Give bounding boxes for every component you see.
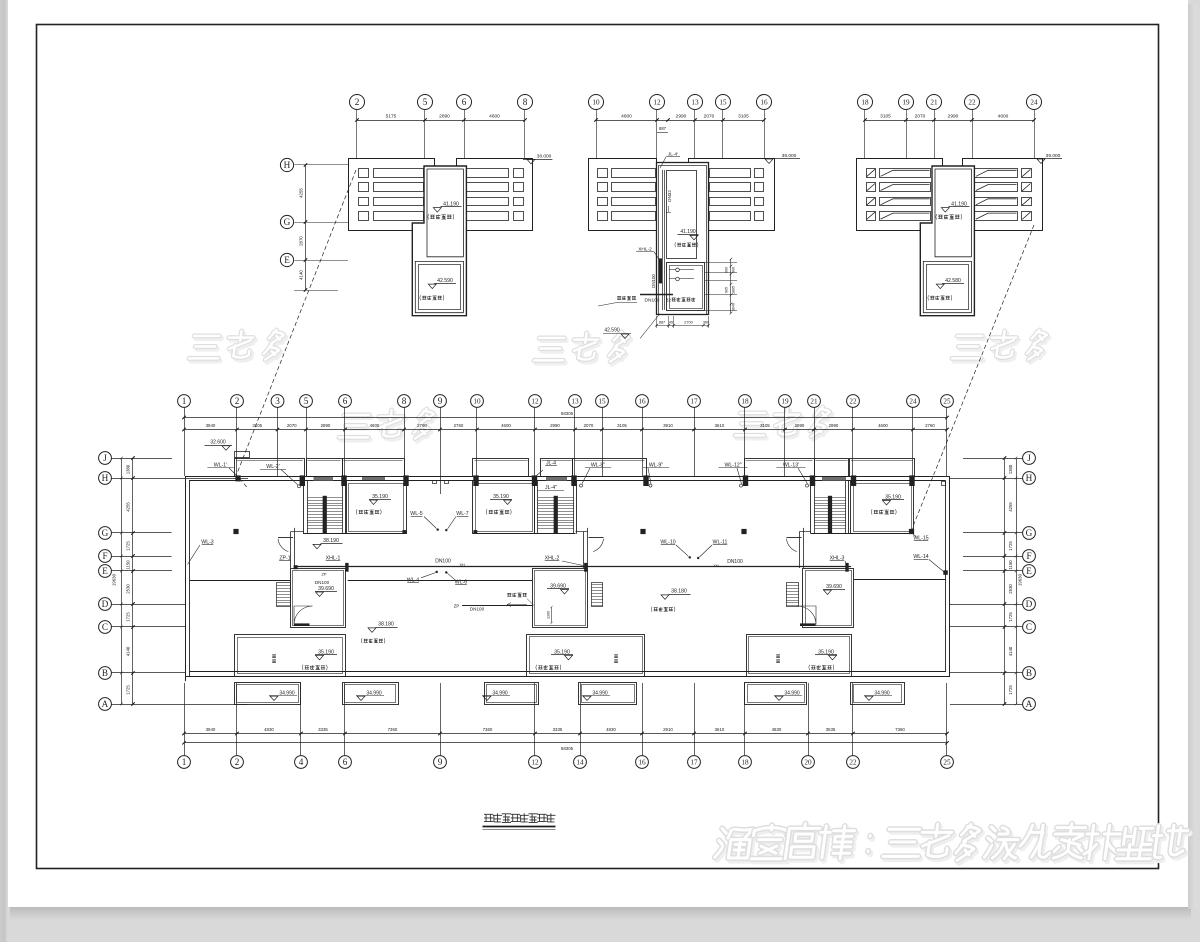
svg-text:38.000: 38.000 bbox=[537, 153, 552, 159]
svg-text:4600: 4600 bbox=[370, 423, 380, 428]
svg-text:1725: 1725 bbox=[1008, 541, 1013, 551]
svg-text:1725: 1725 bbox=[126, 612, 131, 622]
svg-text:H: H bbox=[102, 473, 109, 483]
detail-2 left roof block bbox=[589, 159, 657, 231]
plan bottom grid bubbles bbox=[178, 756, 191, 769]
svg-text:B: B bbox=[102, 668, 108, 678]
svg-text:3: 3 bbox=[275, 396, 280, 406]
plan parapet bumps top bbox=[235, 459, 305, 477]
plan top grid bubbles bbox=[178, 395, 191, 408]
svg-text:ZP: ZP bbox=[321, 572, 326, 577]
svg-text:E: E bbox=[284, 255, 290, 265]
svg-text:6: 6 bbox=[343, 757, 348, 767]
detail-1 stair shaft bbox=[412, 166, 466, 316]
svg-text:3940: 3940 bbox=[206, 727, 216, 732]
detail-3 grid droppers bbox=[864, 110, 866, 159]
plan wall window bars bbox=[314, 477, 334, 481]
svg-text:38.000: 38.000 bbox=[782, 153, 797, 159]
svg-text:12: 12 bbox=[653, 99, 661, 107]
svg-text:2990: 2990 bbox=[948, 114, 959, 120]
plan right dimension chain bbox=[1004, 459, 1006, 704]
svg-text:4: 4 bbox=[299, 757, 304, 767]
plan outer wall top bbox=[185, 476, 950, 478]
svg-text:3535: 3535 bbox=[826, 727, 836, 732]
svg-text:35.190: 35.190 bbox=[372, 494, 388, 500]
svg-text:1380: 1380 bbox=[1008, 464, 1013, 474]
plan vent squares bbox=[433, 481, 437, 484]
plan top dimension band bbox=[184, 417, 947, 419]
plan riser bar XHL-3 bbox=[845, 563, 848, 572]
svg-text:19: 19 bbox=[902, 99, 910, 107]
plan mid room 39.690 no.2 bbox=[533, 569, 588, 628]
svg-text:DN100: DN100 bbox=[727, 559, 743, 565]
svg-text:2760: 2760 bbox=[417, 423, 427, 428]
svg-text:39.690: 39.690 bbox=[318, 586, 334, 592]
plan bottom grid droppers bbox=[184, 683, 186, 755]
plan pipe XH DN100 bbox=[295, 566, 851, 568]
svg-text:5: 5 bbox=[304, 396, 309, 406]
detail-2 grid droppers bbox=[596, 110, 598, 159]
svg-text:1725: 1725 bbox=[126, 541, 131, 551]
svg-text:3105: 3105 bbox=[617, 423, 627, 428]
svg-text:4140: 4140 bbox=[126, 646, 131, 656]
svg-text:4600: 4600 bbox=[878, 423, 888, 428]
plan mid room 39.690 no.3 bbox=[803, 569, 854, 628]
plan pipe junction dot bbox=[294, 565, 298, 569]
plan top grid droppers bbox=[184, 407, 186, 476]
plan pipe mid left segment bbox=[190, 580, 291, 582]
svg-text:2890: 2890 bbox=[321, 423, 331, 428]
detail-2 grid bubbles 10 12 13 15 16 bbox=[589, 95, 604, 110]
svg-text:3335: 3335 bbox=[553, 727, 563, 732]
svg-text:4255: 4255 bbox=[126, 502, 131, 512]
detail-3 left roof block bbox=[857, 159, 943, 231]
plan door arc room-m3 bbox=[797, 606, 816, 625]
plan mid room stair 1 bbox=[277, 583, 291, 607]
svg-text:905: 905 bbox=[725, 287, 729, 293]
plan dim 1300 bbox=[551, 607, 553, 623]
svg-text:14: 14 bbox=[576, 759, 584, 767]
plan parapet bump 32.600 bbox=[235, 452, 250, 458]
svg-text:41.190: 41.190 bbox=[680, 229, 696, 235]
plan interior wall under stairs bbox=[303, 533, 406, 535]
svg-text:4255: 4255 bbox=[299, 188, 304, 198]
svg-text:38.180: 38.180 bbox=[378, 622, 394, 628]
detail-2 right roof block bbox=[689, 159, 775, 231]
svg-text:58305: 58305 bbox=[561, 746, 574, 751]
svg-text:C: C bbox=[102, 622, 108, 632]
svg-text:3105: 3105 bbox=[252, 423, 262, 428]
plan drain WL-14 bbox=[943, 570, 948, 575]
detail-1 level 38.000 marker bbox=[523, 159, 552, 161]
svg-text:24: 24 bbox=[1030, 99, 1038, 107]
detail-3 dimension line bbox=[865, 120, 1034, 122]
svg-text:XH: XH bbox=[713, 564, 719, 568]
svg-text:1725: 1725 bbox=[1008, 612, 1013, 622]
detail-2 black riser bar bbox=[659, 258, 662, 283]
svg-text:21: 21 bbox=[930, 99, 938, 107]
svg-text:7360: 7360 bbox=[895, 727, 905, 732]
plan mid room 39.690 no.1 bbox=[291, 569, 346, 628]
svg-text:10: 10 bbox=[473, 398, 481, 406]
svg-text:9: 9 bbox=[438, 757, 443, 767]
svg-text:J: J bbox=[1027, 453, 1031, 463]
svg-text:JL-4": JL-4" bbox=[545, 485, 557, 491]
svg-text:32: 32 bbox=[666, 297, 671, 302]
plan riser black bar bbox=[345, 563, 348, 572]
plan riser bar XHL-2 bbox=[584, 563, 587, 572]
svg-text:2070: 2070 bbox=[915, 114, 926, 120]
detail-1 grid droppers bbox=[356, 110, 358, 158]
plan rain pipe connection label bbox=[507, 593, 511, 596]
svg-text:4600: 4600 bbox=[998, 114, 1009, 120]
svg-text:22: 22 bbox=[849, 398, 857, 406]
svg-text:16: 16 bbox=[760, 99, 768, 107]
svg-text:2870: 2870 bbox=[299, 236, 304, 246]
plan bottom dimension band bbox=[184, 733, 947, 735]
svg-text:42.590: 42.590 bbox=[604, 328, 620, 334]
page shadow right bbox=[1188, 4, 1200, 909]
svg-text:39.690: 39.690 bbox=[826, 584, 842, 590]
plan corridor wall 1 bbox=[290, 532, 292, 569]
left gutter gradient bbox=[0, 0, 8, 942]
plan terrace drains bbox=[233, 529, 238, 534]
svg-text:7360: 7360 bbox=[388, 727, 398, 732]
svg-text:887: 887 bbox=[659, 126, 667, 131]
svg-text:4830: 4830 bbox=[264, 727, 274, 732]
svg-text:360: 360 bbox=[703, 321, 709, 325]
svg-text:7360: 7360 bbox=[483, 727, 493, 732]
plan room 35.190 no.1 bbox=[347, 481, 407, 534]
detail-1 right roof block bbox=[457, 159, 533, 231]
svg-text:B: B bbox=[1026, 668, 1032, 678]
plan wall junction blocks bbox=[300, 475, 305, 486]
plan corridor wall 2 bbox=[583, 532, 585, 569]
svg-text:C: C bbox=[1026, 622, 1032, 632]
plan door 1 leaf and arc bbox=[278, 537, 293, 539]
svg-text:WL-5: WL-5 bbox=[410, 511, 423, 517]
plan stair core 3 bbox=[810, 481, 812, 534]
svg-text:F: F bbox=[102, 551, 107, 561]
svg-text:4830: 4830 bbox=[772, 727, 782, 732]
svg-text:600: 600 bbox=[725, 267, 729, 273]
plan room 35.190 no.3 bbox=[851, 481, 914, 534]
svg-text:19: 19 bbox=[781, 398, 789, 406]
svg-text:16: 16 bbox=[638, 398, 646, 406]
svg-text:2070: 2070 bbox=[584, 423, 594, 428]
detail-1 side dimension chain bbox=[305, 165, 307, 290]
detail-3 level 39.000 marker bbox=[1031, 158, 1062, 160]
svg-text:17: 17 bbox=[690, 759, 698, 767]
svg-text:1380: 1380 bbox=[126, 464, 131, 474]
svg-text:38.190: 38.190 bbox=[323, 538, 339, 544]
detail-2 level 38.000 marker bbox=[754, 158, 800, 160]
detail-2 lower compartment bbox=[667, 263, 705, 311]
detail-3 right roof block bbox=[963, 159, 1043, 231]
svg-text:E: E bbox=[1026, 566, 1032, 576]
svg-text:5: 5 bbox=[423, 97, 428, 107]
plan bottom room 35.190 no.1 bbox=[235, 635, 346, 677]
detail-1 side bubbles H G E bbox=[280, 158, 293, 171]
plan bottom room 35.190 no.2 bbox=[527, 635, 645, 677]
svg-text:3335: 3335 bbox=[318, 727, 328, 732]
svg-text:15: 15 bbox=[598, 398, 606, 406]
svg-text:3610: 3610 bbox=[715, 727, 725, 732]
svg-text:2: 2 bbox=[235, 396, 240, 406]
svg-text:1300: 1300 bbox=[547, 611, 551, 619]
svg-text:3105: 3105 bbox=[738, 114, 749, 120]
svg-text:16: 16 bbox=[638, 759, 646, 767]
svg-text:4140: 4140 bbox=[1008, 646, 1013, 656]
svg-text:2890: 2890 bbox=[439, 114, 450, 120]
svg-text:2070: 2070 bbox=[704, 114, 715, 120]
plan room 35.190 no.2 bbox=[473, 481, 535, 534]
svg-text:15: 15 bbox=[719, 99, 727, 107]
detail-1 dimension line bbox=[357, 120, 525, 122]
svg-text:1: 1 bbox=[182, 757, 187, 767]
svg-text:2700: 2700 bbox=[684, 321, 692, 325]
detail-2 pipe sleeves circles bbox=[676, 268, 680, 272]
svg-text:19630: 19630 bbox=[112, 573, 117, 586]
detail-2 DN32 riser bbox=[662, 170, 664, 310]
svg-text:18: 18 bbox=[741, 398, 749, 406]
svg-text:24: 24 bbox=[909, 398, 917, 406]
svg-text:17: 17 bbox=[690, 398, 698, 406]
plan right grid lines bbox=[963, 458, 1022, 460]
svg-text:3940: 3940 bbox=[206, 423, 216, 428]
svg-text:E: E bbox=[102, 566, 108, 576]
svg-text:22: 22 bbox=[968, 99, 976, 107]
plan pipe mid right segment bbox=[854, 579, 946, 581]
plan right grid bubbles bbox=[1023, 452, 1036, 465]
detail-2 right dim chain bbox=[730, 259, 732, 313]
svg-text:2910: 2910 bbox=[663, 727, 673, 732]
svg-text:39.000: 39.000 bbox=[1046, 153, 1061, 159]
svg-text:13: 13 bbox=[571, 398, 579, 406]
plan stair core 2 bbox=[534, 481, 536, 534]
svg-text:18: 18 bbox=[741, 759, 749, 767]
svg-text:4255: 4255 bbox=[1008, 502, 1013, 512]
svg-text:2760: 2760 bbox=[925, 423, 935, 428]
svg-text:1725: 1725 bbox=[126, 685, 131, 695]
svg-text:13: 13 bbox=[691, 99, 699, 107]
plan door arc room-m1 bbox=[294, 606, 313, 625]
svg-text:DN100: DN100 bbox=[435, 559, 451, 565]
svg-text:G: G bbox=[102, 528, 109, 538]
svg-text:2760: 2760 bbox=[454, 423, 464, 428]
detail-1 left roof block bbox=[349, 159, 435, 231]
detail-1 roof slats bbox=[359, 169, 369, 178]
detail-3 dashed leader to plan bbox=[912, 225, 1035, 530]
page shadow bottom bbox=[10, 906, 1191, 920]
svg-text:19630: 19630 bbox=[1017, 573, 1022, 586]
svg-text:WL-7: WL-7 bbox=[456, 511, 469, 517]
svg-text:1: 1 bbox=[182, 396, 187, 406]
detail-2 inner room bbox=[667, 171, 697, 259]
plan bottom overall dimension bbox=[184, 742, 947, 744]
svg-text:45: 45 bbox=[669, 321, 673, 325]
svg-text:D: D bbox=[102, 599, 109, 609]
detail-1 grid bubbles 2 5 6 8 bbox=[350, 95, 365, 110]
svg-text:WL-14: WL-14 bbox=[913, 554, 928, 560]
svg-text:3910: 3910 bbox=[663, 423, 673, 428]
svg-text:25: 25 bbox=[943, 398, 951, 406]
detail-2 stair shaft bbox=[657, 163, 709, 315]
detail-2 roof slats bbox=[598, 169, 608, 178]
plan stair core 1 bbox=[303, 481, 305, 534]
svg-text:2990: 2990 bbox=[676, 114, 687, 120]
svg-text:32.600: 32.600 bbox=[210, 440, 226, 446]
plan door 3 leaf and arc bbox=[787, 537, 802, 539]
detail-2 label drain inlet DN100 bbox=[617, 296, 621, 299]
svg-text:1150: 1150 bbox=[1008, 560, 1013, 570]
svg-text:G: G bbox=[284, 217, 291, 227]
svg-text:20: 20 bbox=[804, 759, 812, 767]
svg-text:6: 6 bbox=[343, 396, 348, 406]
plan left grid lines bbox=[112, 458, 173, 460]
svg-text:42.590: 42.590 bbox=[437, 278, 453, 284]
svg-text:J: J bbox=[103, 453, 107, 463]
svg-text:9: 9 bbox=[438, 396, 443, 406]
svg-text:12: 12 bbox=[531, 398, 539, 406]
plan pipe ZP mid bbox=[348, 580, 532, 582]
svg-text:4830: 4830 bbox=[606, 727, 616, 732]
title underline bbox=[483, 826, 556, 828]
svg-text:DN100: DN100 bbox=[315, 580, 330, 585]
watermark san-lao-duo top-left bbox=[191, 339, 223, 361]
svg-text:35.190: 35.190 bbox=[493, 494, 509, 500]
svg-text:887: 887 bbox=[659, 321, 665, 325]
svg-text:A: A bbox=[1026, 699, 1033, 709]
svg-text:A: A bbox=[102, 699, 109, 709]
plan corner mark top-right bbox=[942, 482, 946, 486]
svg-text:2070: 2070 bbox=[287, 423, 297, 428]
svg-text:4140: 4140 bbox=[299, 270, 304, 280]
svg-text:H: H bbox=[1026, 473, 1033, 483]
plan mid room stair 2 bbox=[592, 583, 603, 607]
plan left grid bubbles bbox=[99, 452, 112, 465]
detail-3 stair shaft bbox=[920, 166, 974, 316]
plan bay corner blocks bbox=[402, 530, 406, 534]
plan bottom room 35.190 no.3 bbox=[747, 635, 852, 677]
svg-text:2: 2 bbox=[355, 97, 360, 107]
svg-text:D: D bbox=[1026, 599, 1033, 609]
detail-1 dashed leader to plan bbox=[236, 170, 356, 476]
svg-text:900: 900 bbox=[732, 267, 736, 273]
title roof drainage plan bbox=[484, 813, 555, 822]
svg-text:2990: 2990 bbox=[829, 423, 839, 428]
svg-text:21: 21 bbox=[810, 398, 818, 406]
svg-text:2530: 2530 bbox=[126, 584, 131, 594]
plan left dimension chain bbox=[121, 459, 123, 704]
plan mid room stair 3 bbox=[787, 583, 799, 607]
svg-text:1725: 1725 bbox=[1008, 685, 1013, 695]
detail-3 grid bubbles 18 19 21 22 24 bbox=[858, 95, 873, 110]
watermark san-lao-duo plan-left bbox=[341, 418, 373, 440]
watermark san-lao-duo plan-right bbox=[737, 416, 769, 438]
svg-text:WL-2': WL-2' bbox=[266, 464, 279, 470]
svg-text:XH: XH bbox=[460, 563, 466, 567]
svg-text:H: H bbox=[284, 160, 291, 170]
plan roof drains on top wall bbox=[235, 475, 240, 481]
watermark san-lao-duo top-middle bbox=[536, 341, 568, 363]
svg-text:10: 10 bbox=[592, 99, 600, 107]
svg-text:1805: 1805 bbox=[732, 286, 736, 294]
detail-2 bottom dim line bbox=[656, 325, 709, 327]
detail-2 dimension line bbox=[596, 120, 764, 122]
watermark taobao shop banner bbox=[717, 831, 756, 861]
plan balconies 34.990 bbox=[235, 683, 301, 705]
detail-3 roof slats hatched bbox=[867, 169, 876, 178]
svg-text:3105: 3105 bbox=[760, 423, 770, 428]
svg-text:3105: 3105 bbox=[880, 114, 891, 120]
plan pipe ZP DN100 long bbox=[462, 605, 532, 607]
svg-text:2990: 2990 bbox=[550, 423, 560, 428]
svg-text:3646: 3646 bbox=[732, 303, 736, 311]
svg-text:3610: 3610 bbox=[715, 423, 725, 428]
svg-text:8: 8 bbox=[523, 97, 528, 107]
plan outer wall bottom bbox=[185, 676, 950, 678]
svg-text:5175: 5175 bbox=[386, 114, 397, 120]
svg-text:DN100: DN100 bbox=[651, 274, 656, 288]
plan outer wall right bbox=[949, 476, 951, 677]
svg-text:G: G bbox=[1026, 528, 1033, 538]
svg-text:DN32: DN32 bbox=[667, 190, 672, 202]
svg-text:DN100: DN100 bbox=[645, 298, 660, 304]
svg-text:58305: 58305 bbox=[561, 411, 574, 416]
svg-text:1150: 1150 bbox=[126, 560, 131, 570]
svg-text:2: 2 bbox=[235, 757, 240, 767]
watermark san-lao-duo top-right bbox=[954, 339, 986, 361]
svg-text:F: F bbox=[1026, 551, 1031, 561]
plan door 2 leaf and arc bbox=[589, 537, 604, 539]
svg-text:8: 8 bbox=[402, 396, 407, 406]
svg-text:6: 6 bbox=[462, 97, 467, 107]
svg-text:DN100: DN100 bbox=[470, 607, 485, 612]
svg-text:12: 12 bbox=[531, 759, 539, 767]
svg-text:42.580: 42.580 bbox=[945, 278, 961, 284]
plan outer wall left bbox=[185, 476, 187, 681]
svg-text:18: 18 bbox=[861, 99, 869, 107]
svg-text:22: 22 bbox=[849, 759, 857, 767]
svg-text:4600: 4600 bbox=[621, 114, 632, 120]
svg-text:4600: 4600 bbox=[501, 423, 511, 428]
svg-text:2530: 2530 bbox=[1008, 584, 1013, 594]
svg-text:38.180: 38.180 bbox=[671, 589, 687, 595]
plan corridor wall 3 bbox=[799, 532, 801, 569]
svg-text:ZP: ZP bbox=[454, 604, 460, 609]
svg-text:4600: 4600 bbox=[489, 114, 500, 120]
svg-text:25: 25 bbox=[943, 759, 951, 767]
svg-text:2990: 2990 bbox=[795, 423, 805, 428]
